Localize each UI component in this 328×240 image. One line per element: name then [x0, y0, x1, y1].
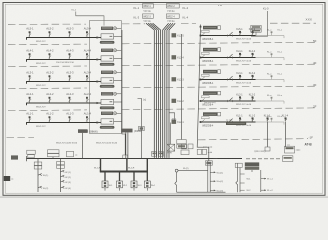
metering aux box: [67, 151, 79, 157]
transformer drop T2: [126, 132, 128, 158]
riser tap box R2: [172, 99, 177, 103]
breaker AL2-1: [26, 92, 34, 103]
wire right feeder col: [252, 170, 261, 192]
right branch 2: [261, 189, 266, 191]
faint branch R3 a: [267, 74, 272, 80]
main breaker R2: [227, 98, 232, 103]
grounding block: [4, 176, 10, 181]
F1 branch 1: [38, 174, 42, 176]
breaker AL4-4: [84, 49, 92, 60]
cabinet feed tick: [103, 21, 105, 26]
terminal blocks top right: [251, 25, 261, 36]
wire floor bus row L1: [27, 122, 102, 125]
bottom edge shade: [0, 196, 328, 198]
meter label box L3: [101, 71, 113, 74]
main breaker R5: [227, 32, 232, 37]
wire thick drop b: [126, 159, 128, 172]
wire floor bus row R1 faint end: [256, 121, 285, 123]
arrowhead into cabinet L1: [97, 121, 101, 123]
junction node R5: [200, 35, 202, 37]
row1F dark schedule bar: [226, 121, 246, 125]
kWh meter L1: [100, 112, 122, 129]
AT-B entry box 2: [285, 145, 302, 153]
bus tap to roof fan: [169, 113, 175, 121]
floor separator 6F: [8, 23, 316, 24]
main breaker R4: [227, 54, 232, 59]
wire meter to collector L3: [114, 80, 122, 82]
wire thick LV bar: [100, 171, 148, 173]
riser tap box R4: [172, 55, 177, 59]
junction node R2: [200, 100, 202, 102]
arrowhead into cabinet L5: [97, 36, 101, 38]
panel head box: [205, 161, 212, 165]
right branch 1: [261, 178, 266, 180]
riser label boxes col 1: [166, 4, 179, 24]
F2 breaker boxes: [57, 161, 65, 164]
breaker AL5-3: [66, 27, 74, 38]
node lamp circle: [175, 169, 178, 172]
T1 label box: [78, 129, 88, 133]
wire floor bus row R5: [201, 35, 256, 37]
node A-2 stub: [125, 129, 128, 131]
wire panel riser pair: [208, 161, 210, 192]
branch breaker KL4-2: [249, 50, 256, 57]
wire thick drop c: [146, 159, 148, 172]
board label box R4: [203, 48, 221, 52]
border frame inner: [5, 4, 323, 193]
kWh meter L5: [100, 27, 122, 44]
breaker AL2-2: [46, 92, 54, 103]
meter label box L2: [101, 92, 113, 95]
wire riser bus line 1: [146, 23, 154, 158]
wire floor bus row L4: [27, 59, 102, 62]
wire floor bus row R3: [201, 79, 256, 81]
wire meter to collector L5: [114, 36, 122, 38]
breaker AL3-2: [46, 71, 54, 82]
junction node R3: [200, 79, 202, 81]
F1 branch 2: [38, 186, 42, 188]
collector terminal box: [123, 155, 128, 158]
wire loop2 pair: [236, 163, 240, 192]
breaker AL4-1: [26, 49, 34, 60]
breaker AL1-1: [26, 112, 34, 123]
F2 branch 4: [61, 186, 65, 188]
wire floor bus row R4: [201, 57, 256, 59]
breaker AL5-4: [84, 27, 92, 38]
meter label box L1: [101, 112, 113, 115]
branch breaker KL5-2: [249, 28, 256, 35]
spare terminal box: [283, 156, 293, 162]
breaker AL3-1: [26, 71, 34, 82]
breaker AL1-4: [84, 112, 92, 123]
breaker AL5-1: [26, 27, 34, 38]
faint end drop R2: [283, 101, 285, 104]
floor separator -1F: [198, 139, 308, 140]
floor separator 5F: [8, 42, 316, 44]
F2 branch 2: [61, 175, 65, 177]
kWh meter L3: [100, 71, 122, 88]
wire loop1 top: [178, 170, 208, 172]
outgoing unit 1: [102, 172, 108, 191]
wire drop to AT-B 2: [285, 122, 287, 147]
panel branch 3: [210, 189, 215, 191]
wire riser bus line 4: [153, 23, 161, 158]
breaker AL1-3: [66, 112, 74, 123]
breaker AL2-4: [84, 92, 92, 103]
border frame outer: [3, 3, 325, 196]
wire floor bus row L3: [27, 81, 102, 84]
distribution stack boxes: [245, 162, 259, 166]
riser label boxes col 0: [143, 4, 154, 24]
riser tap box R1: [172, 120, 177, 124]
wire drop to AT-B 1: [267, 122, 269, 147]
feeder column F2: [60, 159, 62, 193]
breaker on feeder R4: [202, 55, 205, 58]
wire right feeder riser: [197, 25, 209, 162]
panel branch 2: [210, 180, 215, 182]
panel branch 1: [210, 171, 215, 173]
main breaker R3: [227, 76, 232, 81]
bus left label block: [11, 155, 18, 159]
main breaker R1: [227, 119, 232, 124]
meter label box L4: [101, 49, 113, 52]
wire riser bus line 5: [163, 23, 169, 158]
outgoing unit 3: [131, 172, 137, 191]
wire loop1 bottom: [177, 191, 226, 193]
board label box R1: [203, 112, 221, 116]
wire floor bus row L2: [27, 103, 102, 106]
kWh meter L4: [100, 49, 122, 66]
bus left end tick: [26, 156, 28, 161]
junction box on W2: [139, 126, 145, 130]
branch breaker KL2-1: [236, 94, 243, 101]
transformer drop T1: [82, 133, 84, 159]
meter label box L5: [101, 27, 113, 30]
wire rising main right: [181, 34, 183, 139]
faint branch R2 a: [267, 95, 272, 101]
wire meter to collector L2: [114, 101, 122, 103]
floor separator left stub: [7, 137, 35, 139]
board label box R5: [203, 26, 221, 30]
breaker on feeder R1: [202, 119, 205, 122]
branch breaker KL1-3: [264, 115, 271, 122]
floor separator 3F: [8, 86, 316, 88]
faint end drop R5: [283, 36, 285, 39]
wire outgoing KL-0: [251, 11, 268, 36]
branch breaker KL2-2: [249, 94, 256, 101]
wire spare bus dashed: [246, 158, 282, 160]
trunk termination box 2: [158, 152, 163, 157]
junction node R1: [200, 121, 202, 123]
faint branch R4 a: [267, 52, 272, 58]
branch breaker KL3-2: [249, 72, 256, 79]
branch breaker KL4-1: [236, 50, 243, 57]
wire floor bus row R1: [201, 121, 256, 123]
wire loop1 left: [175, 172, 177, 192]
incomer box on bus: [27, 150, 35, 154]
T2 label box: [122, 129, 133, 133]
faint branch R1 a: [267, 116, 272, 122]
faint branch R5 a: [267, 30, 272, 36]
wire riser bus line 7: [167, 23, 173, 158]
riser tap box R5: [172, 33, 177, 37]
breaker on feeder R2: [202, 98, 205, 101]
breaker AL4-3: [66, 49, 74, 60]
branch breaker KL1-4: [282, 115, 289, 122]
wire sub riser W2: [138, 99, 142, 159]
riser tap box R3: [172, 77, 177, 81]
breaker AL2-3: [66, 92, 74, 103]
wire thick drop a: [100, 159, 102, 172]
breaker on feeder R5: [202, 33, 205, 36]
wire floor bus row R2 faint end: [256, 100, 285, 102]
wire floor bus row R4 faint end: [256, 57, 285, 59]
wire riser bus line 6: [165, 23, 171, 158]
wire floor bus row R5 faint end: [256, 35, 285, 37]
loop2 branch 1: [240, 173, 245, 175]
F2 branch 1: [61, 170, 65, 172]
wire floor bus row L5: [27, 37, 102, 40]
breaker AL1-2: [46, 112, 54, 123]
outgoing unit 4: [144, 172, 150, 191]
metering box on bus: [48, 150, 60, 153]
feeder column F1: [37, 159, 39, 193]
floor separator 4F: [8, 64, 316, 66]
wire main LV bus: [27, 158, 243, 160]
F2 branch 3: [61, 180, 65, 182]
floor separator 2F: [8, 108, 316, 111]
arrowhead into cabinet L2: [97, 102, 101, 104]
F1 breaker boxes: [34, 162, 42, 165]
wire meter collector: [122, 30, 125, 155]
meter cabinet AW enclosure: [90, 21, 122, 134]
breaker AL3-3: [66, 71, 74, 82]
wire floor bus row R2: [201, 100, 256, 102]
board label box R2: [203, 91, 221, 95]
faint end drop R1: [283, 122, 285, 125]
wire riser bus line 8: [169, 23, 175, 158]
loop2 branch 3: [240, 189, 245, 191]
loop2 head box: [235, 163, 242, 167]
board label box R3: [203, 70, 221, 74]
AT-B entry box 1: [265, 147, 270, 151]
arrowhead into cabinet L4: [97, 58, 101, 60]
rising main terminal boxes: [177, 140, 186, 144]
breaker AL4-2: [46, 49, 54, 60]
wire meter to collector L4: [114, 58, 122, 60]
faint end drop R3: [283, 80, 285, 83]
wire riser bus line 3: [150, 23, 158, 158]
wire floor bus row R3 faint end: [256, 79, 285, 81]
junction node R4: [200, 57, 202, 59]
wire riser bus line 2: [148, 23, 156, 158]
loop2 branch 2: [240, 182, 245, 184]
outgoing unit 2: [117, 172, 123, 191]
breaker AL3-4: [84, 71, 92, 82]
arrowhead into cabinet L3: [97, 80, 101, 82]
trunk termination box 1: [152, 152, 157, 157]
junction boxes mid: [182, 144, 187, 149]
branch breaker KL1-2: [249, 115, 256, 122]
faint end drop R4: [283, 58, 285, 61]
wire meter to collector L1: [114, 121, 122, 123]
kWh meter L2: [100, 92, 122, 109]
breaker on feeder R3: [202, 77, 205, 80]
branch breaker KL5-1: [236, 28, 243, 35]
fan unit boxed X: [167, 123, 175, 152]
branch breaker KL3-1: [236, 72, 243, 79]
cabinet incoming feed KL-1: [72, 10, 105, 21]
breaker AL5-2: [46, 27, 54, 38]
branch breaker KL1-1: [236, 115, 243, 122]
